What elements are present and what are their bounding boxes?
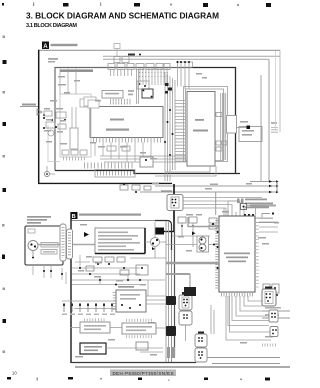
svg-text:3.1 BLOCK DIAGRAM: 3.1 BLOCK DIAGRAM bbox=[26, 23, 77, 29]
svg-text:3. BLOCK DIAGRAM AND SCHEMATIC: 3. BLOCK DIAGRAM AND SCHEMATIC DIAGRAM bbox=[26, 10, 219, 20]
svg-text:B: B bbox=[72, 214, 76, 220]
svg-text:10: 10 bbox=[12, 371, 17, 376]
svg-text:A: A bbox=[43, 44, 48, 50]
svg-text:DEH-P6350/P7350/XN/ES: DEH-P6350/P7350/XN/ES bbox=[113, 371, 174, 376]
